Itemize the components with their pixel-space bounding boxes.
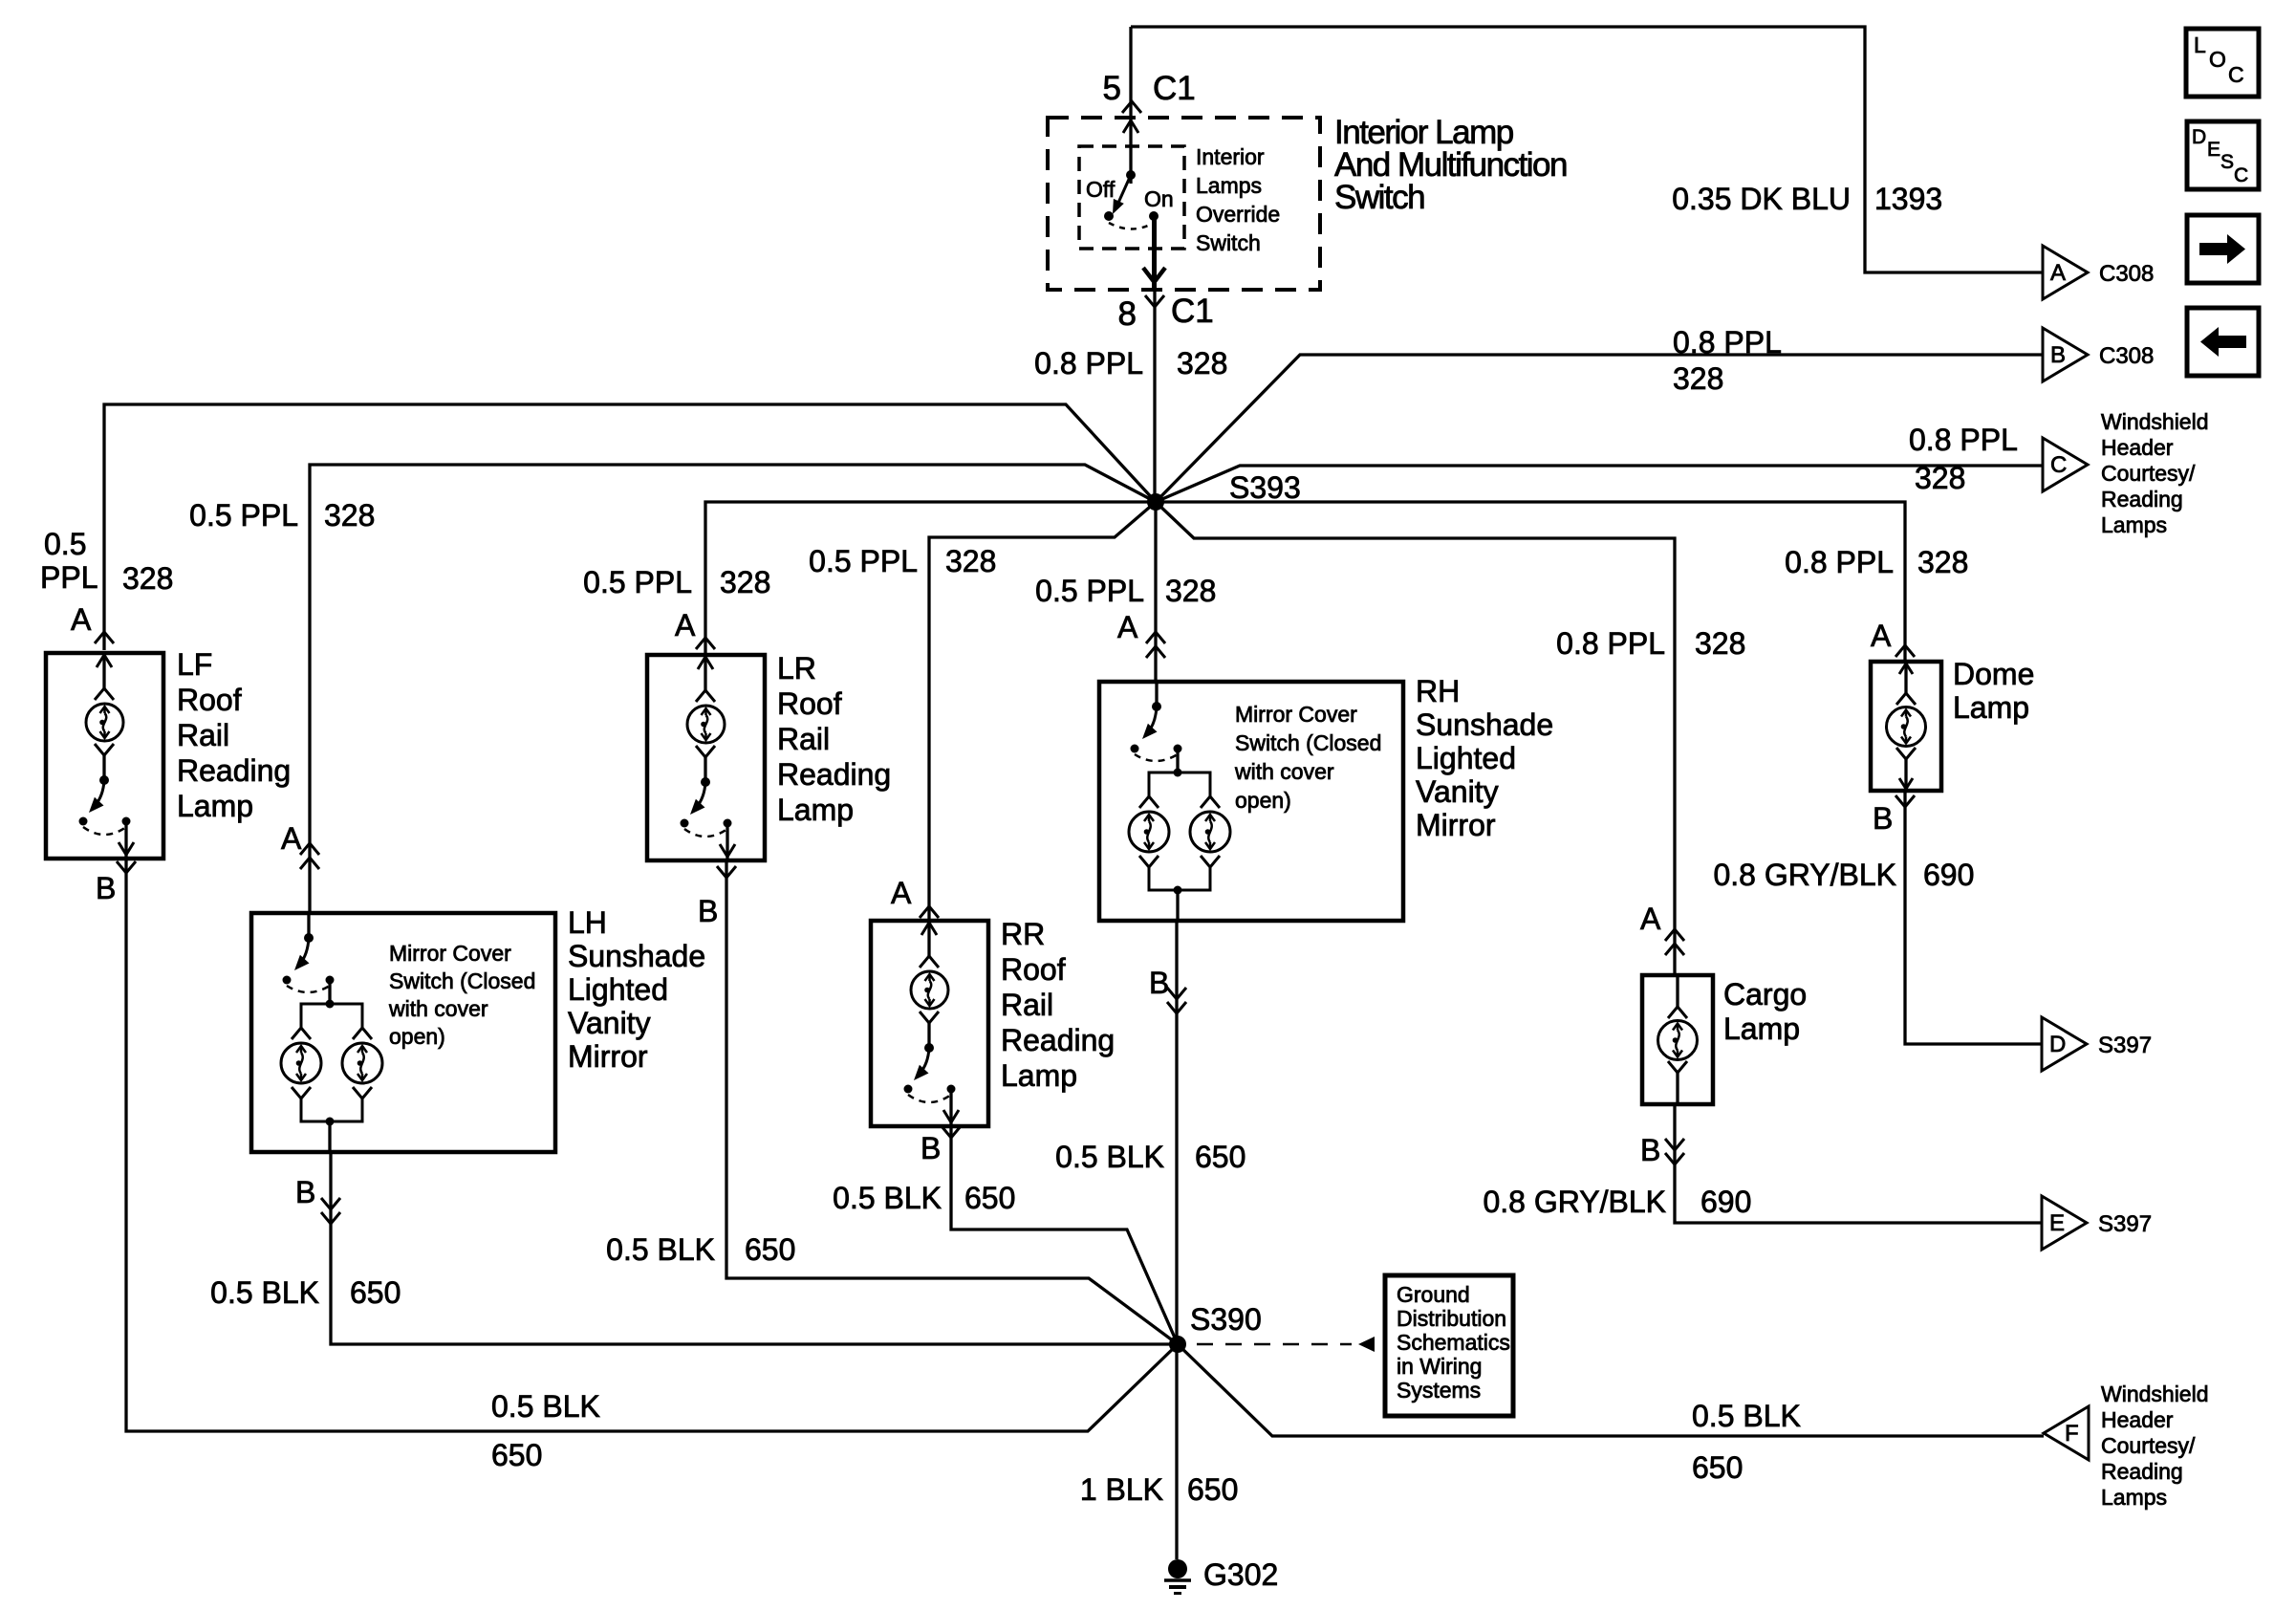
- RR roof rail reading lamp internal output wire: [949, 1089, 952, 1124]
- svg-text:B: B: [96, 871, 116, 905]
- RR roof rail reading lamp box: [871, 921, 988, 1126]
- wire: pin 5 vertical into override switch: [1129, 27, 1132, 184]
- svg-text:Sunshade: Sunshade: [568, 939, 705, 973]
- right-arrow legend box: [2187, 215, 2259, 283]
- svg-text:0.8 PPL: 0.8 PPL: [1556, 626, 1665, 661]
- svg-text:328: 328: [1915, 461, 1965, 495]
- svg-text:0.5 BLK: 0.5 BLK: [491, 1389, 600, 1424]
- ground distribution note box: [1385, 1275, 1513, 1416]
- svg-text:A: A: [71, 602, 92, 637]
- connector triangle A C308: [2043, 246, 2088, 299]
- svg-text:A: A: [1640, 902, 1661, 936]
- svg-text:Reading: Reading: [2101, 1459, 2183, 1484]
- svg-text:328: 328: [720, 565, 770, 599]
- svg-text:0.8 PPL: 0.8 PPL: [1909, 423, 2018, 457]
- svg-text:Windshield: Windshield: [2101, 409, 2209, 434]
- connector mark 8 C1: [1145, 295, 1164, 307]
- RH sunshade lighted vanity mirror box: [1099, 682, 1403, 921]
- svg-text:A: A: [891, 876, 912, 910]
- wire: S393 to LF roof rail lamp (0.5 PPL 328): [104, 404, 1156, 650]
- svg-text:Switch (Closed: Switch (Closed: [1235, 730, 1381, 755]
- svg-text:C308: C308: [2099, 343, 2154, 369]
- svg-text:Vanity: Vanity: [1416, 774, 1499, 809]
- svg-text:Ground: Ground: [1397, 1282, 1470, 1307]
- svg-text:Switch: Switch: [1334, 179, 1424, 216]
- svg-text:328: 328: [1673, 361, 1723, 396]
- wire: S393 to connector B (0.8 PPL 328): [1156, 355, 2043, 502]
- svg-text:Lighted: Lighted: [1416, 741, 1516, 775]
- svg-text:On: On: [1144, 186, 1174, 211]
- svg-text:0.5 BLK: 0.5 BLK: [833, 1181, 942, 1215]
- svg-text:328: 328: [1165, 574, 1216, 608]
- svg-text:0.5 BLK: 0.5 BLK: [1055, 1140, 1164, 1174]
- svg-text:Mirror Cover: Mirror Cover: [389, 941, 511, 966]
- svg-text:1 BLK: 1 BLK: [1080, 1472, 1163, 1507]
- svg-text:1393: 1393: [1874, 182, 1942, 216]
- svg-text:690: 690: [1700, 1185, 1751, 1219]
- svg-text:8: 8: [1118, 295, 1137, 333]
- svg-text:Off: Off: [1086, 177, 1116, 202]
- svg-text:C1: C1: [1153, 70, 1196, 107]
- svg-text:Reading: Reading: [177, 753, 291, 788]
- override switch arm: [1118, 175, 1131, 203]
- svg-text:B: B: [1873, 801, 1893, 836]
- svg-text:G302: G302: [1203, 1557, 1278, 1592]
- left-arrow legend box: [2187, 308, 2259, 376]
- svg-text:LF: LF: [177, 647, 212, 682]
- svg-text:Reading: Reading: [1001, 1023, 1115, 1057]
- dome lamp box: [1871, 662, 1941, 791]
- svg-text:Windshield: Windshield: [2101, 1382, 2209, 1406]
- svg-text:Override: Override: [1196, 202, 1280, 227]
- svg-text:Rail: Rail: [177, 718, 229, 752]
- wire: cargo lamp B to connector E (0.8 GRY/BLK 690): [1675, 1106, 2042, 1223]
- LR roof rail reading lamp internal output wire: [726, 823, 728, 859]
- svg-text:Rail: Rail: [777, 722, 830, 756]
- svg-text:0.8 PPL: 0.8 PPL: [1673, 325, 1782, 359]
- svg-text:Header: Header: [2101, 435, 2174, 460]
- LR roof rail reading lamp box: [647, 655, 765, 860]
- wire: pin 8 down to splice S393: [1153, 290, 1156, 502]
- wire: S390 to connector F (0.5 BLK 650): [1178, 1344, 2044, 1436]
- svg-text:RH: RH: [1416, 674, 1460, 708]
- svg-text:Cargo: Cargo: [1723, 977, 1807, 1012]
- override switch pivot: [1126, 170, 1136, 180]
- LH sunshade lighted vanity mirror left bulb: [292, 1028, 311, 1039]
- LH sunshade lighted vanity mirror lamp bus: [301, 1004, 362, 1028]
- RR roof rail reading lamp switch: [920, 1012, 939, 1023]
- wire: dome lamp B to connector D (0.8 GRY/BLK 690): [1905, 791, 2042, 1044]
- svg-text:B: B: [2050, 342, 2066, 368]
- wire: LR lamp B to S390 (0.5 BLK 650): [726, 860, 1178, 1344]
- svg-text:A: A: [281, 821, 302, 856]
- svg-text:Courtesy/: Courtesy/: [2101, 461, 2196, 486]
- wire: switch pin 5 feed, top run to connector A: [1131, 27, 2043, 272]
- svg-text:Vanity: Vanity: [568, 1006, 651, 1040]
- cargo lamp bulb: [1658, 1021, 1698, 1060]
- wire: LF lamp B to S390 (0.5 BLK 650): [126, 859, 1178, 1431]
- svg-text:D: D: [2049, 1032, 2066, 1057]
- svg-text:S390: S390: [1190, 1302, 1262, 1337]
- LH sunshade lighted vanity mirror box: [251, 913, 555, 1152]
- svg-text:A: A: [1871, 619, 1892, 653]
- wire: S393 to connector C (0.8 PPL 328): [1156, 466, 2043, 502]
- svg-text:0.8 GRY/BLK: 0.8 GRY/BLK: [1713, 858, 1896, 892]
- svg-text:Mirror: Mirror: [1416, 808, 1496, 842]
- svg-text:O: O: [2209, 47, 2226, 72]
- svg-text:Lamps: Lamps: [1196, 173, 1262, 198]
- svg-text:Sunshade: Sunshade: [1416, 707, 1553, 742]
- ground G302: [1168, 1559, 1187, 1578]
- svg-text:Lamp: Lamp: [1001, 1058, 1077, 1093]
- svg-text:B: B: [921, 1131, 941, 1165]
- svg-text:Mirror: Mirror: [568, 1039, 648, 1074]
- svg-text:B: B: [1640, 1133, 1660, 1167]
- svg-text:Switch (Closed: Switch (Closed: [389, 968, 535, 993]
- svg-text:A: A: [1117, 610, 1138, 644]
- override switch output stub: [1152, 216, 1157, 288]
- svg-text:Lamps: Lamps: [2101, 1485, 2167, 1510]
- svg-text:B: B: [295, 1175, 315, 1209]
- RH sunshade lighted vanity mirror bottom bus: [1149, 867, 1210, 890]
- svg-text:Rail: Rail: [1001, 988, 1053, 1022]
- svg-text:328: 328: [122, 561, 173, 596]
- connector triangle E S397: [2042, 1196, 2087, 1250]
- LF roof rail reading lamp switch: [95, 744, 114, 755]
- dome lamp bulb: [1887, 707, 1926, 747]
- override switch feed arrow: [1123, 120, 1138, 133]
- wire: S393 to LR roof rail lamp (0.5 PPL 328): [705, 502, 1156, 655]
- wire: S393 to RR roof rail lamp (0.5 PPL 328): [929, 502, 1156, 921]
- dashed reference arrow S390 to ground distribution note: [1197, 1343, 1352, 1346]
- LR roof rail reading lamp bulb: [687, 706, 725, 743]
- svg-text:Systems: Systems: [1397, 1378, 1481, 1403]
- splice S393: [1147, 493, 1164, 511]
- svg-text:Mirror Cover: Mirror Cover: [1235, 702, 1357, 727]
- svg-text:0.8 GRY/BLK: 0.8 GRY/BLK: [1483, 1185, 1666, 1219]
- svg-text:Lamp: Lamp: [177, 789, 253, 823]
- LF roof rail reading lamp box: [46, 653, 163, 859]
- dome lamp connector B: [1895, 795, 1915, 807]
- svg-text:C308: C308: [2099, 261, 2154, 287]
- svg-text:328: 328: [324, 498, 375, 533]
- svg-text:S397: S397: [2098, 1033, 2152, 1058]
- svg-text:Courtesy/: Courtesy/: [2101, 1433, 2196, 1458]
- override switch Off contact: [1104, 211, 1114, 221]
- svg-text:Roof: Roof: [1001, 952, 1066, 987]
- LH sunshade lighted vanity mirror mirror cover switch: [307, 913, 310, 938]
- svg-text:0.5 PPL: 0.5 PPL: [189, 498, 298, 533]
- wire: LH mirror B to S390 (0.5 BLK 650): [331, 1151, 1178, 1344]
- connector triangle F: [2044, 1406, 2089, 1460]
- svg-text:Schematics: Schematics: [1397, 1330, 1510, 1355]
- wire: S393 to cargo lamp (0.8 PPL 328): [1156, 502, 1675, 975]
- svg-text:Lamp: Lamp: [777, 793, 854, 827]
- svg-text:0.5: 0.5: [44, 527, 86, 561]
- svg-text:0.35 DK BLU: 0.35 DK BLU: [1672, 182, 1851, 216]
- svg-text:Header: Header: [2101, 1407, 2174, 1432]
- svg-text:328: 328: [1695, 626, 1745, 661]
- svg-text:328: 328: [945, 544, 996, 578]
- svg-text:with cover: with cover: [388, 996, 488, 1021]
- LF roof rail reading lamp bulb: [86, 704, 123, 741]
- wire: RH mirror B down through S390 to G302 (0.5 BLK 650): [1175, 921, 1178, 1559]
- svg-text:Reading: Reading: [2101, 487, 2183, 511]
- interior lamps override switch inner dashed box: [1079, 146, 1184, 249]
- svg-text:650: 650: [1195, 1140, 1245, 1174]
- svg-text:Lamp: Lamp: [1953, 690, 2029, 725]
- svg-text:0.8 PPL: 0.8 PPL: [1034, 346, 1143, 381]
- svg-text:Roof: Roof: [777, 686, 842, 721]
- connector mark 5 C1: [1122, 101, 1141, 113]
- svg-text:Reading: Reading: [777, 757, 891, 792]
- svg-text:open): open): [1235, 788, 1291, 813]
- svg-text:with cover: with cover: [1234, 759, 1334, 784]
- svg-text:S: S: [2220, 151, 2234, 173]
- svg-text:C1: C1: [1171, 293, 1214, 330]
- svg-text:PPL: PPL: [40, 560, 97, 595]
- svg-text:650: 650: [1187, 1472, 1238, 1507]
- svg-text:D: D: [2192, 126, 2206, 148]
- svg-text:Distribution: Distribution: [1397, 1306, 1506, 1331]
- LF roof rail reading lamp internal output wire: [124, 821, 127, 857]
- svg-text:650: 650: [350, 1275, 401, 1310]
- svg-text:F: F: [2065, 1421, 2079, 1447]
- RH sunshade lighted vanity mirror lamp bus: [1149, 772, 1210, 796]
- wire: S393 to dome lamp (0.8 PPL 328): [1156, 502, 1905, 662]
- svg-text:0.5 PPL: 0.5 PPL: [1035, 574, 1144, 608]
- svg-text:A: A: [675, 608, 696, 642]
- svg-text:RR: RR: [1001, 917, 1045, 951]
- svg-text:328: 328: [1917, 545, 1968, 579]
- LOC legend box: [2186, 29, 2259, 97]
- svg-text:5: 5: [1103, 70, 1121, 107]
- svg-text:LH: LH: [568, 905, 607, 940]
- RH sunshade lighted vanity mirror left bulb: [1139, 796, 1159, 808]
- LR lamp connector B: [717, 866, 736, 878]
- svg-text:Interior: Interior: [1196, 144, 1265, 169]
- cargo lamp box: [1642, 975, 1713, 1104]
- RR roof rail reading lamp bulb: [911, 971, 948, 1009]
- svg-text:C: C: [2234, 164, 2248, 186]
- svg-text:LR: LR: [777, 651, 816, 685]
- svg-text:in Wiring: in Wiring: [1397, 1354, 1482, 1379]
- svg-text:Roof: Roof: [177, 683, 242, 717]
- svg-text:Lighted: Lighted: [568, 972, 668, 1007]
- LH sunshade lighted vanity mirror bottom bus: [301, 1099, 362, 1121]
- RH sunshade lighted vanity mirror internal output wire: [1176, 890, 1179, 921]
- svg-text:690: 690: [1923, 858, 1974, 892]
- svg-text:Dome: Dome: [1953, 657, 2034, 691]
- svg-text:0.5 PPL: 0.5 PPL: [809, 544, 918, 578]
- svg-text:328: 328: [1177, 346, 1227, 381]
- connector triangle C: [2043, 438, 2088, 491]
- wire: RR lamp B to S390 (0.5 BLK 650): [951, 1125, 1178, 1344]
- override switch dashed arc: [1109, 223, 1154, 229]
- svg-text:0.5 BLK: 0.5 BLK: [606, 1232, 715, 1267]
- LR roof rail reading lamp internal feed wire: [704, 655, 706, 690]
- svg-text:650: 650: [491, 1438, 542, 1472]
- svg-text:A: A: [2050, 260, 2066, 286]
- svg-text:650: 650: [745, 1232, 795, 1267]
- connector triangle B C308: [2043, 328, 2088, 381]
- LF roof rail reading lamp internal feed wire: [102, 653, 105, 688]
- RH sunshade lighted vanity mirror mirror cover switch: [1155, 682, 1158, 707]
- RH sunshade lighted vanity mirror right bulb: [1201, 796, 1220, 808]
- connector triangle D S397: [2042, 1017, 2087, 1071]
- wire: S393 down to RH vanity mirror (0.5 PPL 328): [1154, 502, 1157, 682]
- svg-text:B: B: [698, 894, 718, 928]
- svg-text:650: 650: [964, 1181, 1015, 1215]
- override switch On contact: [1149, 211, 1159, 221]
- svg-text:0.5 PPL: 0.5 PPL: [583, 565, 692, 599]
- RR roof rail reading lamp internal feed wire: [927, 921, 930, 956]
- wire: S393 to LH vanity mirror (0.5 PPL 328): [310, 465, 1156, 913]
- LH sunshade lighted vanity mirror internal output wire: [328, 1121, 331, 1152]
- svg-text:S397: S397: [2098, 1211, 2152, 1237]
- DESC legend box: [2187, 121, 2259, 189]
- svg-text:open): open): [389, 1024, 445, 1049]
- svg-text:E: E: [2049, 1210, 2065, 1236]
- svg-text:L: L: [2194, 33, 2206, 57]
- LF lamp connector B: [117, 861, 136, 873]
- svg-text:0.8 PPL: 0.8 PPL: [1785, 545, 1894, 579]
- svg-text:650: 650: [1692, 1450, 1743, 1485]
- svg-text:0.5 BLK: 0.5 BLK: [210, 1275, 319, 1310]
- svg-text:Switch: Switch: [1196, 230, 1261, 255]
- svg-text:0.5 BLK: 0.5 BLK: [1692, 1399, 1801, 1433]
- svg-text:C: C: [2228, 62, 2244, 87]
- svg-text:Lamps: Lamps: [2101, 512, 2167, 537]
- LH sunshade lighted vanity mirror right bulb: [353, 1028, 372, 1039]
- svg-text:C: C: [2050, 452, 2067, 478]
- svg-text:S393: S393: [1229, 470, 1301, 505]
- LR roof rail reading lamp switch: [696, 746, 715, 757]
- RR lamp connector B: [942, 1126, 961, 1138]
- svg-text:B: B: [1149, 966, 1169, 1000]
- svg-text:Lamp: Lamp: [1723, 1012, 1800, 1046]
- splice S390: [1169, 1336, 1186, 1353]
- interior lamp and multifunction switch outer dashed box: [1048, 118, 1320, 290]
- svg-text:E: E: [2207, 139, 2220, 161]
